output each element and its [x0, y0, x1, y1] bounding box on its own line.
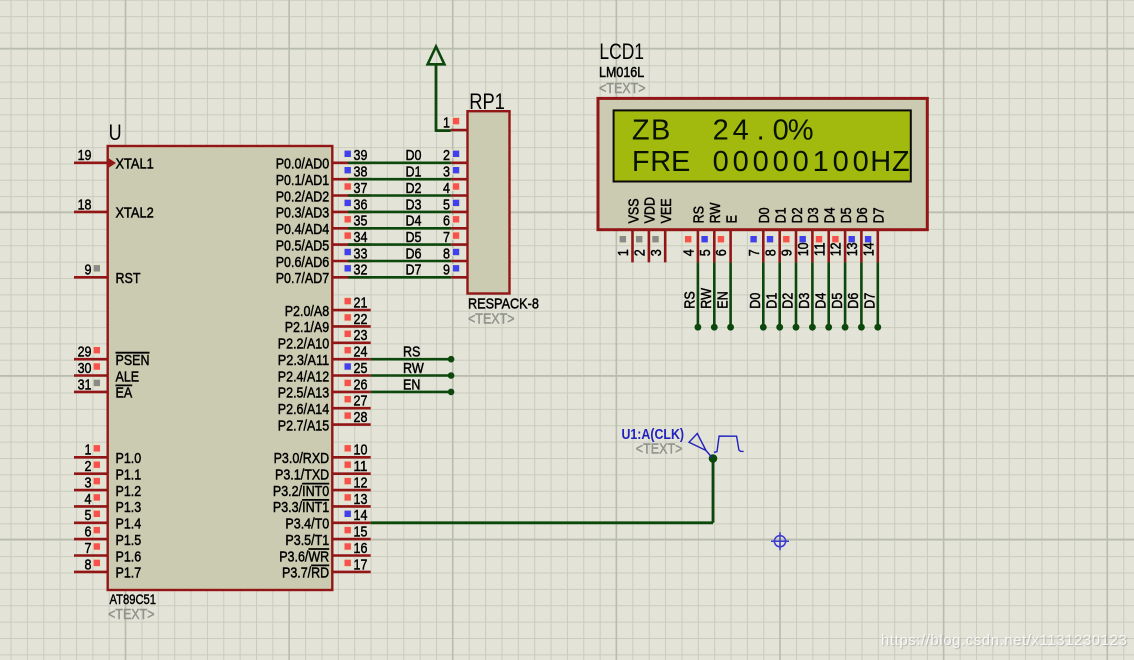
svg-text:0: 0	[793, 146, 809, 178]
svg-text:3: 3	[443, 165, 450, 181]
svg-text:6: 6	[714, 249, 730, 256]
svg-text:<TEXT>: <TEXT>	[468, 312, 515, 328]
svg-text:0: 0	[713, 146, 729, 178]
svg-text:P0.7/AD7: P0.7/AD7	[276, 271, 330, 287]
svg-text:P0.5/AD5: P0.5/AD5	[276, 238, 330, 254]
svg-text:B: B	[651, 115, 670, 147]
svg-text:D4: D4	[406, 214, 422, 230]
svg-text:D0: D0	[406, 148, 422, 164]
svg-text:11: 11	[354, 459, 368, 475]
svg-text:XTAL1: XTAL1	[116, 157, 154, 173]
svg-text:P1.6: P1.6	[116, 549, 142, 565]
svg-text:.: .	[757, 115, 765, 147]
svg-text:8: 8	[85, 557, 92, 573]
svg-text:D5: D5	[830, 293, 846, 309]
svg-text:P1.1: P1.1	[116, 468, 142, 484]
svg-text:D6: D6	[846, 293, 862, 309]
svg-text:P3.1/TXD: P3.1/TXD	[275, 468, 329, 484]
svg-text:1: 1	[616, 249, 632, 256]
svg-text:AT89C51: AT89C51	[110, 591, 157, 607]
svg-text:D1: D1	[774, 207, 790, 223]
svg-text:4: 4	[682, 249, 698, 256]
svg-text:D7: D7	[406, 263, 422, 279]
svg-text:RW: RW	[699, 288, 715, 309]
svg-text:RW: RW	[403, 361, 424, 377]
svg-text:1: 1	[443, 116, 450, 132]
svg-text:R: R	[650, 146, 671, 178]
svg-text:RW: RW	[708, 202, 724, 223]
svg-text:EN: EN	[403, 377, 420, 393]
svg-text:12: 12	[829, 242, 845, 256]
svg-text:28: 28	[354, 410, 368, 426]
svg-text:P2.1/A9: P2.1/A9	[285, 320, 330, 336]
svg-text:F: F	[632, 146, 650, 178]
svg-text:D4: D4	[823, 207, 839, 223]
svg-text:XTAL2: XTAL2	[116, 206, 154, 222]
svg-text:P3.2/INT0: P3.2/INT0	[273, 484, 329, 500]
svg-text:D2: D2	[406, 181, 422, 197]
svg-text:1: 1	[85, 443, 92, 459]
svg-text:RESPACK-8: RESPACK-8	[468, 297, 539, 313]
svg-text:15: 15	[354, 525, 368, 541]
svg-text:EN: EN	[715, 291, 731, 308]
svg-text:P0.4/AD4: P0.4/AD4	[276, 222, 330, 238]
svg-text:D6: D6	[855, 207, 871, 223]
svg-text:D2: D2	[790, 207, 806, 223]
svg-text:16: 16	[354, 541, 368, 557]
svg-text:0: 0	[853, 146, 869, 178]
svg-text:0: 0	[833, 146, 849, 178]
svg-text:VDD: VDD	[643, 197, 659, 223]
svg-text:P1.5: P1.5	[116, 533, 142, 549]
svg-text:P1.0: P1.0	[116, 451, 142, 467]
svg-text:Z: Z	[892, 146, 910, 178]
svg-text:P1.7: P1.7	[116, 566, 142, 582]
svg-text:19: 19	[78, 148, 92, 164]
svg-text:P3.0/RXD: P3.0/RXD	[274, 451, 330, 467]
svg-text:ALE: ALE	[116, 369, 140, 385]
svg-text:D4: D4	[813, 293, 829, 309]
svg-text:RP1: RP1	[469, 89, 505, 114]
svg-text:1: 1	[813, 146, 829, 178]
svg-text:RS: RS	[692, 206, 708, 223]
svg-text:https://blog.csdn.net/x1131230: https://blog.csdn.net/x1131230123	[881, 632, 1127, 649]
svg-text:P2.3/A11: P2.3/A11	[278, 353, 329, 369]
svg-text:0: 0	[733, 146, 749, 178]
svg-text:P3.6/WR: P3.6/WR	[279, 549, 329, 565]
svg-text:P2.2/A10: P2.2/A10	[278, 337, 329, 353]
svg-text:23: 23	[354, 328, 368, 344]
svg-text:14: 14	[861, 242, 877, 256]
svg-text:P2.4/A12: P2.4/A12	[278, 369, 329, 385]
svg-text:3: 3	[649, 249, 665, 256]
svg-text:0: 0	[773, 115, 789, 147]
svg-text:31: 31	[78, 377, 92, 393]
svg-text:VEE: VEE	[659, 198, 675, 223]
svg-text:13: 13	[845, 242, 861, 256]
svg-text:24: 24	[354, 345, 368, 361]
svg-text:D1: D1	[764, 293, 780, 309]
svg-text:30: 30	[78, 361, 92, 377]
svg-text:10: 10	[354, 443, 368, 459]
svg-text:P3.4/T0: P3.4/T0	[285, 517, 329, 533]
svg-text:RS: RS	[403, 345, 420, 361]
svg-text:4: 4	[85, 492, 92, 508]
svg-text:8: 8	[763, 249, 779, 256]
svg-text:14: 14	[354, 508, 368, 524]
svg-text:D3: D3	[797, 293, 813, 309]
svg-text:LCD1: LCD1	[599, 39, 644, 64]
svg-text:5: 5	[443, 197, 450, 213]
svg-text:RST: RST	[116, 271, 141, 287]
svg-text:P1.3: P1.3	[116, 500, 142, 516]
svg-text:7: 7	[747, 249, 763, 256]
svg-text:P0.0/AD0: P0.0/AD0	[276, 157, 330, 173]
svg-text:12: 12	[354, 476, 368, 492]
svg-text:P0.6/AD6: P0.6/AD6	[276, 255, 330, 271]
svg-text:2: 2	[713, 115, 729, 147]
svg-text:6: 6	[443, 214, 450, 230]
svg-text:10: 10	[796, 242, 812, 256]
svg-text:<TEXT>: <TEXT>	[636, 442, 683, 458]
svg-text:P3.5/T1: P3.5/T1	[285, 533, 329, 549]
svg-text:27: 27	[354, 394, 368, 410]
svg-text:D5: D5	[406, 230, 422, 246]
svg-text:H: H	[870, 146, 891, 178]
svg-text:U: U	[109, 120, 122, 145]
svg-text:D7: D7	[872, 207, 888, 223]
svg-text:P3.3/INT1: P3.3/INT1	[273, 500, 329, 516]
svg-text:7: 7	[85, 541, 92, 557]
svg-text:U1:A(CLK): U1:A(CLK)	[622, 427, 685, 443]
svg-text:E: E	[724, 215, 740, 224]
svg-text:VSS: VSS	[626, 198, 642, 223]
svg-text:P0.1/AD1: P0.1/AD1	[276, 173, 330, 189]
svg-text:D3: D3	[406, 197, 422, 213]
svg-text:2: 2	[85, 459, 92, 475]
svg-text:<TEXT>: <TEXT>	[599, 81, 646, 97]
svg-text:P2.7/A15: P2.7/A15	[278, 418, 329, 434]
svg-text:25: 25	[354, 361, 368, 377]
svg-text:PSEN: PSEN	[116, 353, 150, 369]
svg-text:11: 11	[812, 242, 828, 256]
svg-text:5: 5	[698, 249, 714, 256]
svg-text:P0.2/AD2: P0.2/AD2	[276, 189, 330, 205]
svg-text:P3.7/RD: P3.7/RD	[282, 566, 329, 582]
svg-text:D0: D0	[757, 207, 773, 223]
svg-text:8: 8	[443, 246, 450, 262]
svg-text:D3: D3	[806, 207, 822, 223]
svg-text:P1.2: P1.2	[116, 484, 142, 500]
svg-text:9: 9	[443, 263, 450, 279]
svg-text:9: 9	[85, 263, 92, 279]
svg-text:18: 18	[78, 197, 92, 213]
svg-text:Z: Z	[632, 115, 650, 147]
svg-text:P0.3/AD3: P0.3/AD3	[276, 206, 330, 222]
svg-text:D6: D6	[406, 246, 422, 262]
svg-text:5: 5	[85, 508, 92, 524]
svg-text:13: 13	[354, 492, 368, 508]
svg-text:29: 29	[78, 345, 92, 361]
svg-text:D1: D1	[406, 165, 422, 181]
svg-text:D2: D2	[781, 293, 797, 309]
svg-text:2: 2	[633, 249, 649, 256]
svg-text:21: 21	[354, 296, 368, 312]
svg-text:P2.0/A8: P2.0/A8	[285, 304, 330, 320]
svg-text:D5: D5	[839, 207, 855, 223]
svg-text:2: 2	[443, 148, 450, 164]
svg-text:26: 26	[354, 377, 368, 393]
svg-text:%: %	[788, 115, 814, 147]
svg-text:D7: D7	[863, 293, 879, 309]
svg-text:4: 4	[733, 115, 749, 147]
svg-text:17: 17	[354, 557, 368, 573]
svg-text:D0: D0	[748, 293, 764, 309]
svg-text:EA: EA	[116, 386, 133, 402]
svg-text:0: 0	[753, 146, 769, 178]
svg-text:<TEXT>: <TEXT>	[108, 607, 155, 623]
svg-text:9: 9	[780, 249, 796, 256]
svg-text:22: 22	[354, 312, 368, 328]
svg-text:LM016L: LM016L	[599, 65, 644, 81]
svg-text:RS: RS	[683, 291, 699, 308]
svg-text:6: 6	[85, 525, 92, 541]
svg-text:P2.5/A13: P2.5/A13	[278, 386, 329, 402]
svg-text:P1.4: P1.4	[116, 517, 142, 533]
svg-text:3: 3	[85, 476, 92, 492]
svg-text:7: 7	[443, 230, 450, 246]
svg-text:E: E	[671, 146, 690, 178]
svg-text:P2.6/A14: P2.6/A14	[278, 402, 329, 418]
svg-text:4: 4	[443, 181, 450, 197]
svg-text:0: 0	[773, 146, 789, 178]
